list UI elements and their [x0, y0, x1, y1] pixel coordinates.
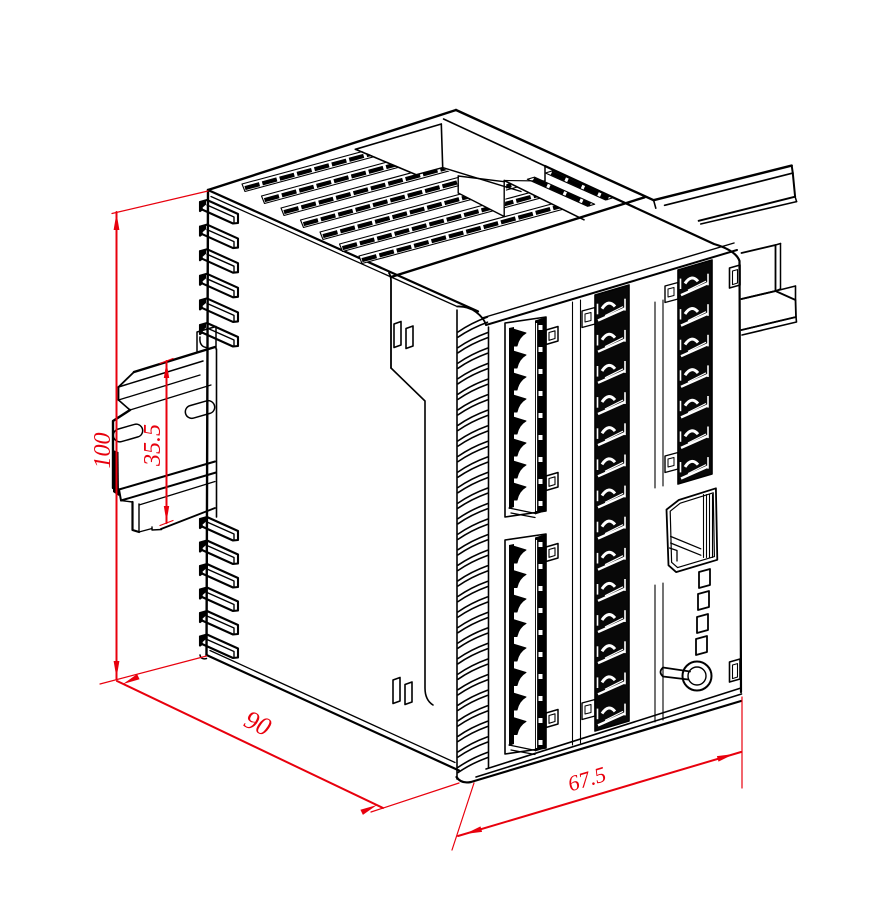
svg-text:35.5: 35.5	[140, 424, 166, 467]
svg-text:100: 100	[90, 433, 116, 469]
